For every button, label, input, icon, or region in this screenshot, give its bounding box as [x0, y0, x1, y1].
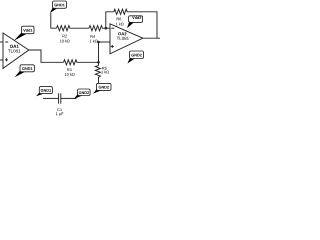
connector GND1 callout top — [50, 1, 67, 13]
node junction dots — [97, 27, 107, 64]
resistor R5 — [95, 66, 100, 84]
resistor R2 — [57, 26, 72, 31]
node junction OA2 plus / R5 — [97, 41, 100, 44]
wire R4 to OA2 minus input — [106, 27, 110, 29]
label R4 — [91, 35, 96, 38]
wire from GND1 top connector down to R2 — [51, 13, 57, 28]
value 1 uF of C1 — [56, 112, 63, 115]
label R6 — [117, 17, 122, 20]
text GND2 below OA2 — [131, 54, 141, 57]
label R5 — [102, 67, 107, 70]
value 1 kOhm of R6 — [116, 23, 124, 26]
connector Vdd1 callout — [14, 26, 34, 41]
text GND1 below OA1 — [22, 67, 32, 70]
text GND2 cap right — [79, 91, 89, 94]
wire OA2 output — [143, 37, 160, 39]
op-amp OA2 — [110, 24, 143, 54]
connector GND1 callout capacitor left — [36, 87, 52, 97]
node junction R3 / R5 — [97, 61, 100, 64]
value 1 kOhm of R5 — [101, 71, 109, 74]
wire capacitor left — [43, 97, 59, 99]
wire capacitor right — [61, 97, 77, 99]
OA1 plus sign — [5, 59, 8, 61]
resistor R3 — [64, 60, 81, 65]
connector GND1 callout below OA1 — [15, 65, 35, 77]
OA2 plus sign — [111, 45, 114, 47]
text GND1 cap left — [41, 89, 51, 92]
label C1 — [57, 108, 62, 111]
resistor R6 — [114, 9, 130, 14]
wire junction to OA2 plus input — [99, 41, 111, 43]
connector Vdd2 callout — [127, 16, 143, 28]
op-amp OA1 — [3, 33, 29, 68]
capacitor C1 plate left — [58, 93, 60, 103]
label OA2 — [118, 32, 126, 35]
OA1 plus input stub — [0, 59, 3, 61]
OA2 minus sign — [111, 27, 114, 29]
connector GND2 callout below R5 — [93, 83, 111, 93]
OA1 minus sign — [5, 41, 8, 43]
text Vdd2 — [132, 16, 141, 19]
label OA1 — [10, 45, 19, 48]
value 10 kOhm of R3 — [65, 73, 75, 76]
value 10 kOhm of R2 — [60, 40, 70, 43]
OA1 minus input stub — [0, 41, 3, 43]
resistor R4 — [89, 26, 106, 31]
text GND1 top — [54, 4, 64, 7]
connector GND2 callout below OA2 — [128, 51, 144, 64]
wire R2 to R4 — [72, 27, 90, 29]
text Vdd1 — [23, 29, 32, 32]
label TL081 of OA2 — [117, 37, 129, 40]
capacitor C1 plate right — [60, 93, 62, 103]
label R3 — [67, 68, 72, 71]
label TL081 of OA1 — [8, 49, 20, 52]
wire feedback riser — [106, 12, 114, 28]
connector GND2 callout capacitor right — [74, 89, 90, 99]
wire vertical junction down — [98, 42, 100, 66]
text GND2 below R5 — [99, 86, 109, 89]
wire feedback over and down to output — [130, 12, 157, 38]
wire OA1 output elbow down to R3 row — [29, 50, 64, 62]
wire R3 to junction — [80, 61, 99, 63]
label R2 — [62, 35, 66, 38]
value 1 kOhm of R4 — [90, 40, 98, 43]
node junction R4/feedback/OA2 minus — [105, 27, 108, 30]
